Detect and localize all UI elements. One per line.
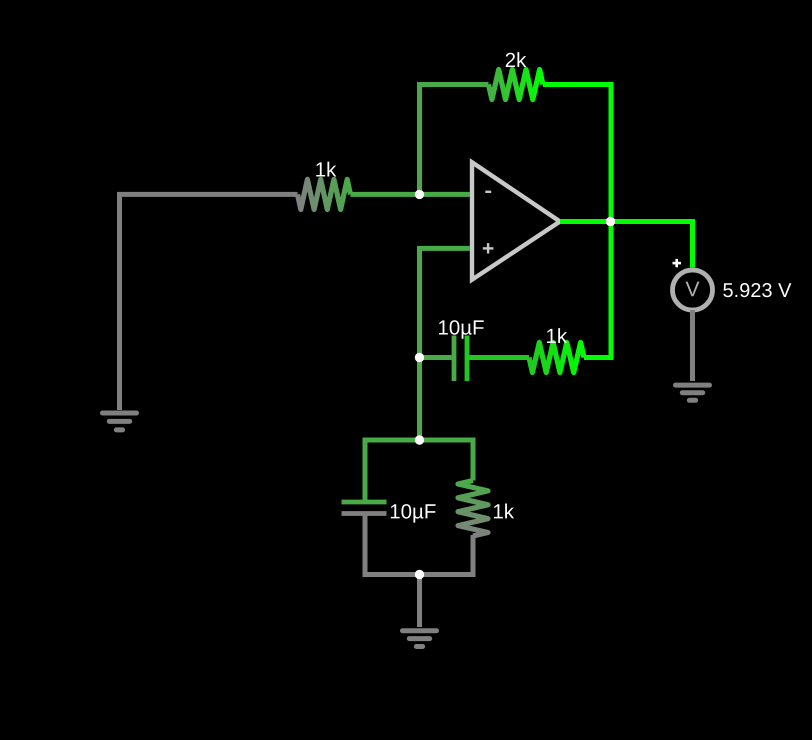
node A junction bbox=[415, 190, 424, 199]
resistor R2 1k (input) bbox=[298, 179, 351, 209]
ground G3 bbox=[676, 385, 710, 400]
node output junction bbox=[606, 217, 615, 226]
label R1 value 2k bbox=[506, 52, 527, 67]
label C2 value 10uF bbox=[391, 504, 436, 523]
voltmeter reading 5.923 V bbox=[723, 283, 791, 297]
node RC top junction bbox=[415, 435, 424, 444]
node C1 left junction bbox=[415, 353, 424, 362]
resistor R3 1k (mid) bbox=[529, 343, 584, 373]
wire junction to C1 left plate bbox=[420, 355, 452, 360]
wire output down to R3 right end bbox=[584, 222, 611, 358]
capacitor C2 10uF (bottom) bbox=[342, 500, 387, 505]
wire node A: R2 to op-amp minus input (through junction) bbox=[351, 192, 470, 197]
ground G2 bbox=[403, 631, 437, 647]
wire voltmeter to ground bbox=[690, 310, 695, 381]
label R3 value 1k bbox=[547, 328, 567, 343]
label R4 value 1k bbox=[494, 504, 514, 519]
wire output: apex right to voltmeter corner and down bbox=[560, 222, 693, 268]
label R2 value 1k bbox=[316, 162, 336, 177]
wire R1 right to top-right corner down to output junction bbox=[543, 85, 611, 222]
resistor R1 2k (feedback) bbox=[489, 70, 544, 100]
label C1 value 10uF bbox=[439, 320, 484, 339]
wire bottom junction to ground bbox=[417, 575, 422, 628]
wire C1 right plate to R3 bbox=[467, 355, 529, 360]
ground G1 bbox=[103, 413, 137, 430]
op-amp U1 bbox=[472, 162, 560, 279]
op-amp minus mark bbox=[485, 191, 491, 193]
wire bottom RC bottom frame gray bbox=[365, 514, 473, 575]
voltmeter plus mark bbox=[673, 262, 682, 265]
voltmeter M1 bbox=[673, 259, 792, 310]
wire plus input: left and down through cap junction to RC junction bbox=[420, 248, 470, 440]
wire feedback left: junction up and right to R1 bbox=[420, 85, 489, 195]
wire bottom RC top frame bbox=[365, 440, 473, 502]
resistor R4 1k (bottom, vertical) bbox=[458, 481, 488, 537]
op-amp plus mark bbox=[483, 247, 494, 249]
capacitor C1 10uF (mid) bbox=[452, 336, 457, 382]
wire input gray horizontal and vertical to ground bbox=[120, 194, 298, 410]
node RC bottom junction bbox=[415, 570, 424, 579]
